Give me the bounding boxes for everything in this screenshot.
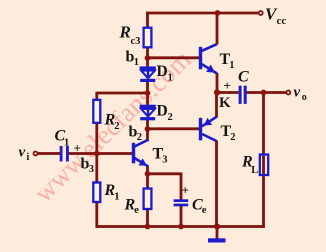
terminal Vcc circle xyxy=(259,11,263,15)
wire C1 to T3 base xyxy=(69,152,133,155)
svg-text:c3: c3 xyxy=(131,36,141,47)
junction dot node A (between D1 and D2) xyxy=(145,90,151,96)
junction dot Ce at bottom bus xyxy=(178,224,184,230)
resistor Rc3 xyxy=(144,28,152,48)
resistor RL xyxy=(260,155,268,176)
wire node E3 down to Re xyxy=(146,174,149,189)
resistor R1 xyxy=(93,183,100,203)
svg-text:2: 2 xyxy=(137,132,142,143)
terminal vi circle xyxy=(34,152,38,156)
wire node A branch to R2 top xyxy=(97,92,149,95)
diode D1 xyxy=(140,66,156,82)
wire top bus xyxy=(146,12,258,15)
junction dot b3 xyxy=(94,151,100,157)
transistor T1 emitter arrow xyxy=(206,65,215,73)
wire left trunk: top bus to Rc3 xyxy=(146,12,149,29)
svg-text:1: 1 xyxy=(134,57,139,68)
svg-text:C: C xyxy=(238,69,249,86)
wire R2 bottom to b3 xyxy=(95,123,98,155)
wire D2 to b2 xyxy=(146,119,149,131)
capacitor C xyxy=(239,86,247,104)
wire Rc3 to b1 xyxy=(146,47,149,59)
junction dot node E3 xyxy=(145,171,151,177)
wire Re to bottom bus xyxy=(146,209,149,227)
wire D1 to D2 (through node A) xyxy=(146,80,149,107)
junction dot vo branch xyxy=(261,90,267,96)
svg-text:o: o xyxy=(302,92,307,103)
svg-text:2: 2 xyxy=(230,132,235,143)
junction dot K xyxy=(214,89,220,95)
svg-text:cc: cc xyxy=(277,15,287,27)
resistor Re xyxy=(144,189,152,210)
svg-text:i: i xyxy=(27,152,30,163)
wire right trunk: top bus junction down to T1 collector xyxy=(216,12,219,45)
svg-text:3: 3 xyxy=(89,164,94,175)
junction dot top bus xyxy=(215,10,221,16)
wire T2 collector down to bottom bus xyxy=(215,141,218,227)
wire T3 emitter to node E3 xyxy=(146,166,149,176)
transistor T1 xyxy=(201,44,218,73)
wire K to C capacitor xyxy=(216,91,239,94)
capacitor C1 xyxy=(60,146,69,162)
junction dot ground at bottom bus xyxy=(214,223,220,229)
wire T1 emitter down to K xyxy=(216,73,219,94)
terminal vo circle xyxy=(286,91,290,95)
transistor T2 emitter arrow (points toward bar) xyxy=(204,118,213,126)
wire vi terminal to C1 xyxy=(38,152,61,155)
wire Ce bottom plate to bottom bus xyxy=(180,206,183,228)
wire node E3 to Ce branch xyxy=(146,172,181,175)
ground xyxy=(208,238,226,242)
wire vo junction down to RL and to bottom bus xyxy=(262,91,265,228)
svg-text:D: D xyxy=(157,103,168,120)
wire b3 down to R1 xyxy=(95,154,98,183)
svg-text:3: 3 xyxy=(162,155,167,166)
svg-text:L: L xyxy=(251,165,258,176)
svg-text:1: 1 xyxy=(168,73,173,84)
wire bottom bus xyxy=(96,225,265,228)
svg-text:2: 2 xyxy=(168,112,173,123)
junction dot Re at bottom bus xyxy=(145,224,151,230)
wire R1 to bottom bus xyxy=(95,202,98,228)
transistor T3 emitter arrow xyxy=(139,158,148,165)
diode D2 xyxy=(140,105,156,121)
svg-text:1: 1 xyxy=(229,60,234,71)
svg-text:+: + xyxy=(74,141,81,156)
wire C capacitor to vo terminal xyxy=(247,91,287,94)
wire R2 top corner down xyxy=(95,92,98,101)
capacitor Ce xyxy=(174,199,189,206)
svg-text:1: 1 xyxy=(64,138,69,149)
svg-text:R: R xyxy=(119,23,131,42)
wire b2 to T2 base xyxy=(148,127,200,130)
resistor R2 xyxy=(93,100,100,123)
svg-text:K: K xyxy=(219,95,231,111)
wire b1 to T1 base xyxy=(148,56,200,59)
wire b2 down to T3 collector xyxy=(146,129,149,142)
wire b1 to D1 xyxy=(146,58,149,68)
svg-text:+: + xyxy=(182,183,189,198)
svg-text:1: 1 xyxy=(114,192,119,203)
svg-text:v: v xyxy=(294,85,301,101)
svg-text:v: v xyxy=(19,145,26,161)
junction dot b1 xyxy=(145,55,151,61)
svg-text:D: D xyxy=(157,63,168,80)
svg-text:e: e xyxy=(202,205,207,216)
transistor T3 xyxy=(134,140,149,167)
svg-text:2: 2 xyxy=(114,121,119,132)
junction dot b2 xyxy=(145,126,151,132)
wire K down to T2 emitter xyxy=(215,93,218,118)
svg-text:+: + xyxy=(224,78,231,93)
wire ground stub xyxy=(216,227,219,239)
svg-text:e: e xyxy=(134,205,139,216)
wire Ce branch down to Ce top plate xyxy=(180,173,183,201)
transistor T2 (PNP) xyxy=(201,117,217,141)
